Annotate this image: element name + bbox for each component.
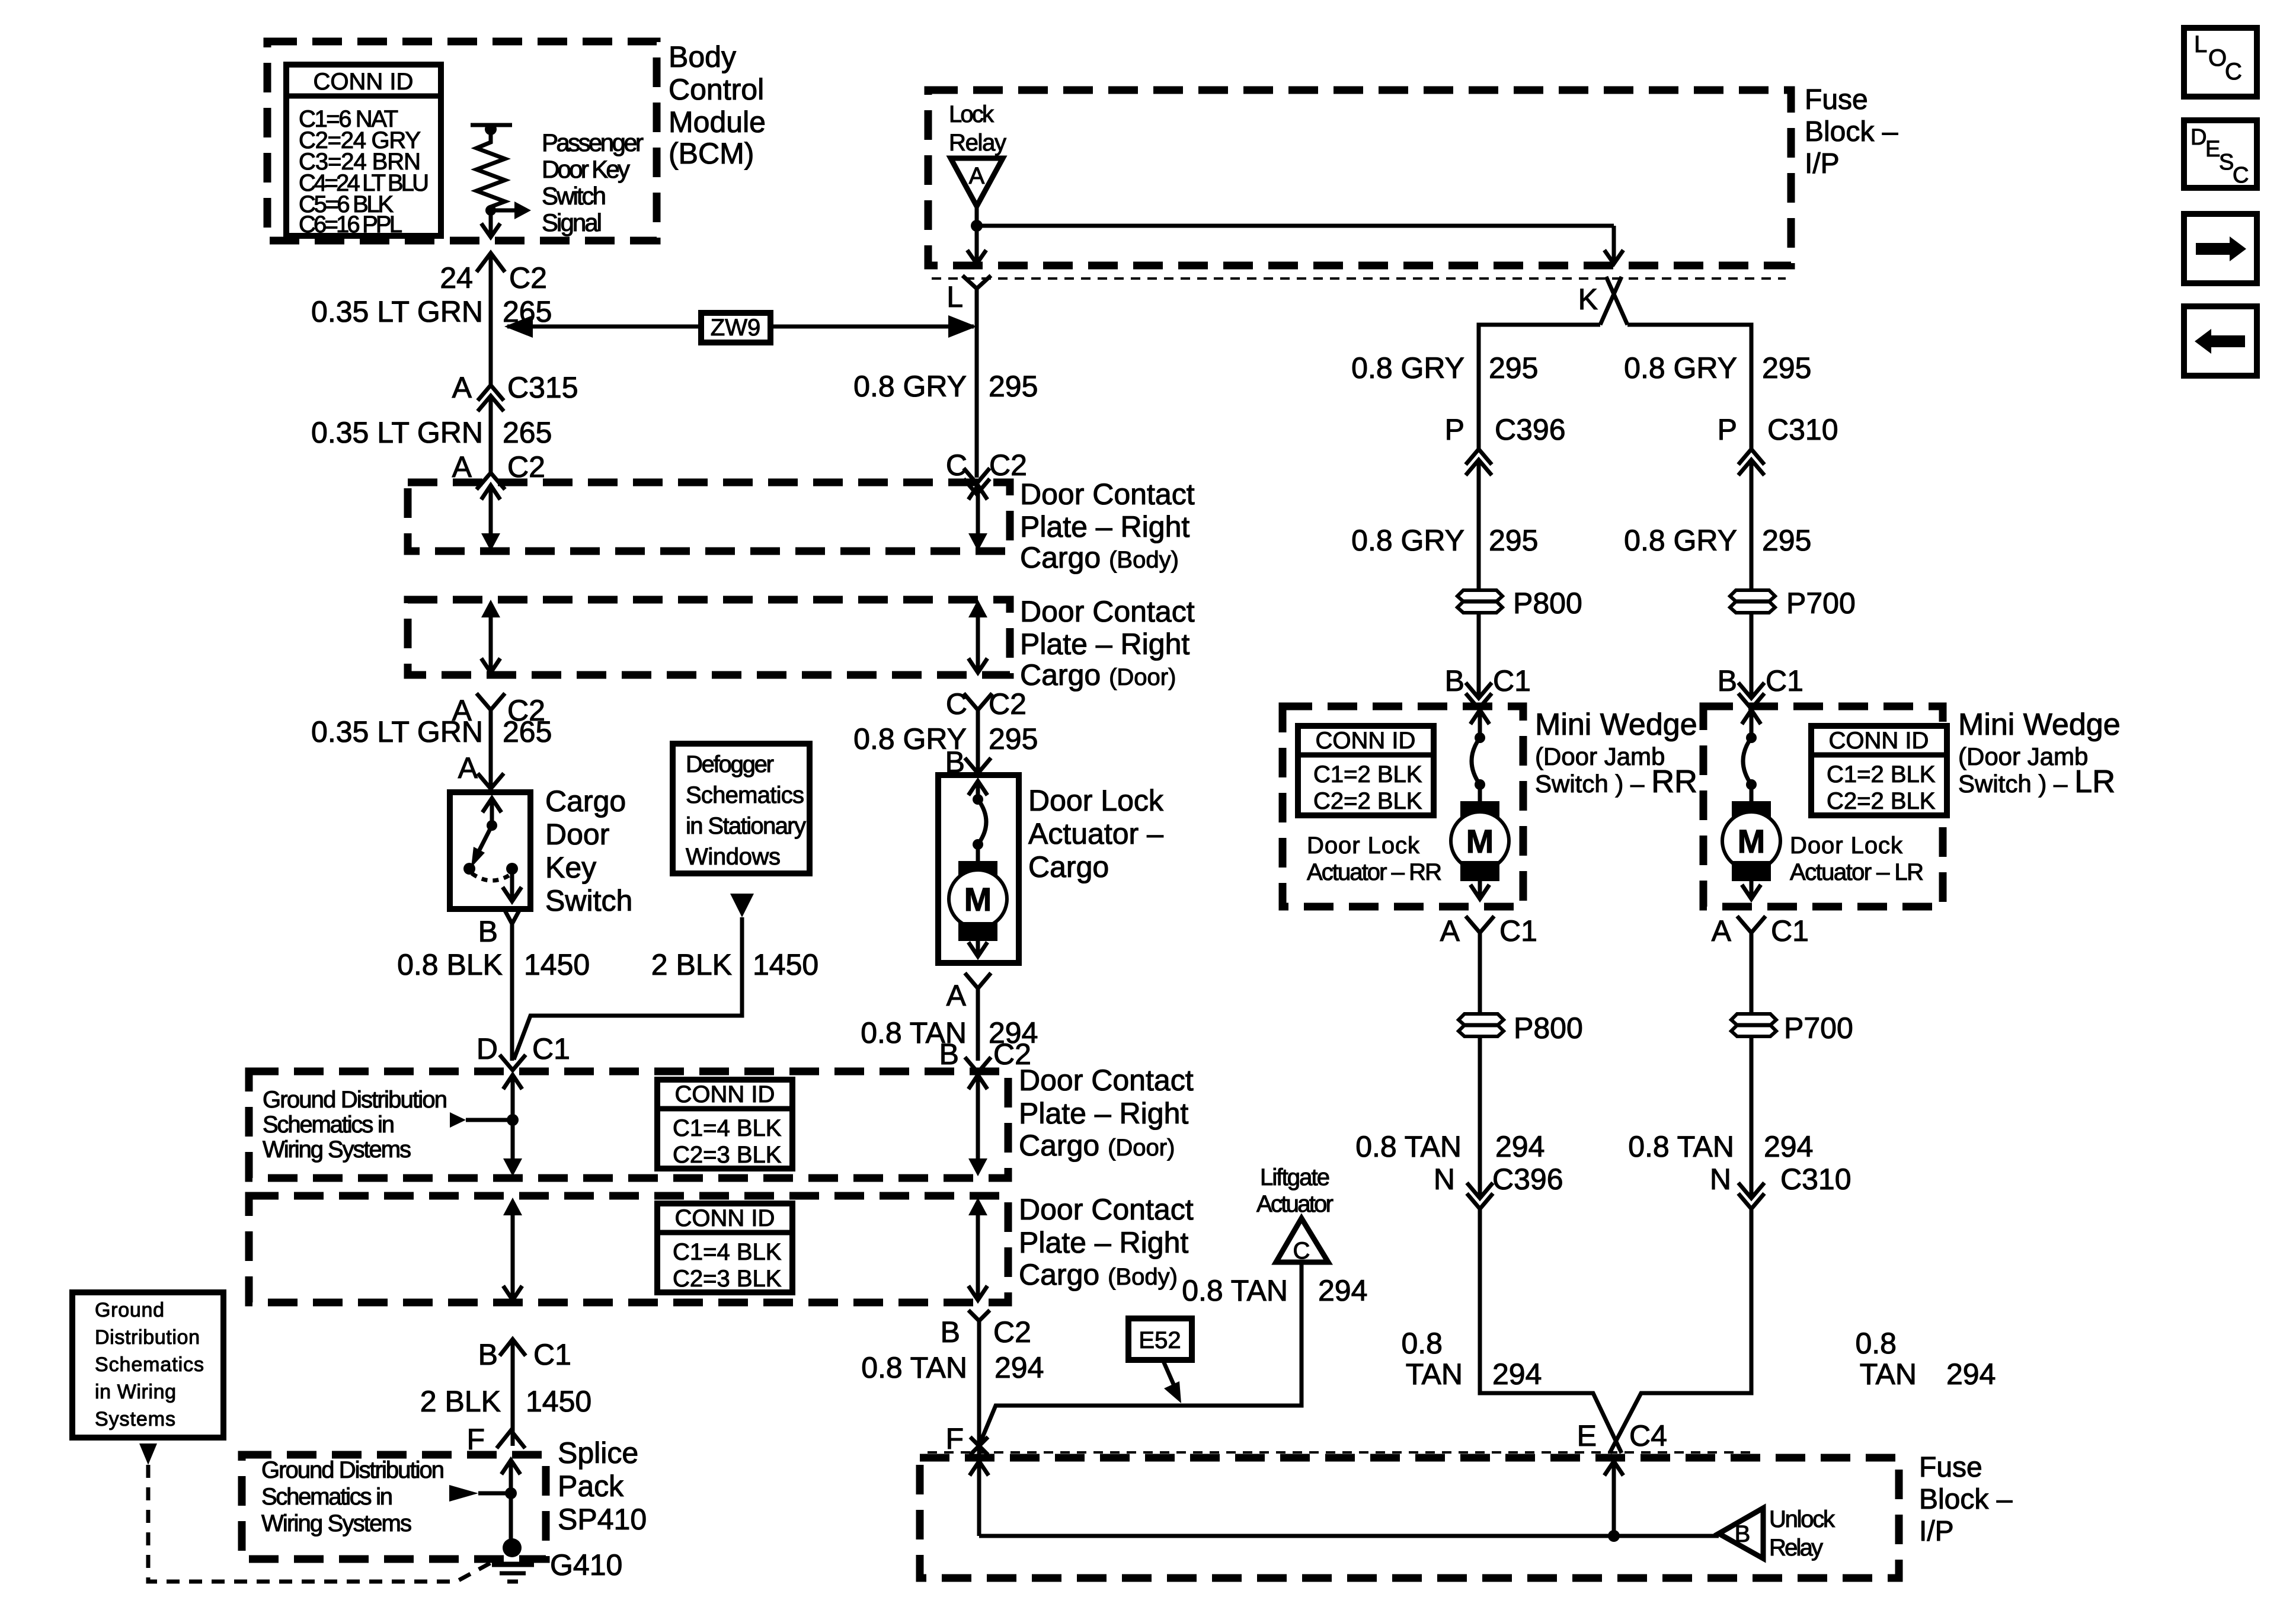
svg-text:B: B [478, 1338, 498, 1371]
svg-text:Door Lock: Door Lock [1790, 833, 1903, 859]
label P700 upper [1786, 587, 1856, 620]
wire in bottom fuse block F side [970, 1461, 989, 1536]
pin label B (actuator) [945, 745, 965, 779]
svg-text:Windows: Windows [686, 844, 781, 870]
svg-text:2 BLK: 2 BLK [420, 1385, 501, 1418]
svg-text:C: C [2233, 163, 2249, 188]
wire label 0.8 GRY 295 (RR upper) [1351, 351, 1538, 385]
wire arrows in plate box1 left [481, 485, 500, 551]
svg-text:Liftgate: Liftgate [1260, 1164, 1330, 1190]
connector C315 double chevron [478, 385, 504, 411]
ground distribution note (in box) [263, 1087, 447, 1163]
door contact plate box (Body) upper [408, 482, 1010, 551]
svg-text:D: D [477, 1032, 498, 1065]
door lock actuator RR label [1307, 833, 1442, 885]
wire to L pin with arrow [967, 226, 986, 264]
svg-text:295: 295 [989, 370, 1038, 403]
dashed leader to G410 [148, 1465, 497, 1582]
grommet P700 upper [1730, 590, 1775, 613]
svg-text:1450: 1450 [524, 948, 590, 981]
svg-text:Relay: Relay [1769, 1535, 1823, 1561]
svg-text:M: M [964, 881, 992, 918]
wire label 0.35 LT GRN 265 (2) [311, 416, 552, 449]
svg-text:Schematics in: Schematics in [263, 1112, 395, 1138]
mini wedge RR box [1283, 706, 1523, 907]
unlock relay label [1769, 1506, 1835, 1561]
svg-text:A: A [969, 163, 985, 189]
mini wedge RR label [1535, 708, 1697, 799]
BCM label [669, 40, 766, 170]
svg-text:B: B [1718, 664, 1737, 697]
connector row thin dashed line (bottom) [928, 1451, 1754, 1454]
wire arrows in lower box B left [503, 1198, 522, 1300]
wire to K pin with arrow [1604, 226, 1623, 264]
wire to BCM pin with open arrow [481, 210, 500, 237]
svg-text:0.8 TAN: 0.8 TAN [861, 1351, 967, 1384]
right arrow icon box [2184, 214, 2257, 283]
svg-text:Plate – Right: Plate – Right [1020, 628, 1189, 661]
pin label F (middle) [945, 1422, 964, 1455]
door lock actuator RR internals [1451, 710, 1509, 899]
svg-text:F: F [945, 1422, 964, 1455]
svg-text:L: L [946, 280, 963, 313]
wire label 0.35 LT GRN 265 [311, 295, 552, 328]
cargo door key switch label [545, 785, 632, 917]
wire 0.8 GRY to actuator [976, 710, 980, 775]
door contact plate box (Body) lower [249, 1196, 1008, 1302]
svg-text:Schematics in: Schematics in [261, 1484, 393, 1510]
svg-text:Schematics: Schematics [686, 782, 804, 808]
connector chevron A/C2 below box2 [477, 693, 505, 710]
defogger note box [673, 744, 810, 873]
svg-text:Relay: Relay [949, 130, 1006, 156]
connector chevron C/C2 below box2 [964, 693, 992, 710]
wire split to RR branch [1479, 325, 1600, 449]
svg-text:C: C [946, 449, 967, 482]
wire label 0.8 TAN 294 (liftgate) [1182, 1274, 1367, 1307]
wire label 0.8 GRY 295 (LR upper) [1624, 351, 1811, 385]
svg-text:C1: C1 [532, 1032, 570, 1065]
wire RR 0.8 TAN to N [1478, 1036, 1482, 1197]
wire P700 to mini wedge [1750, 613, 1754, 697]
svg-text:Lock: Lock [949, 101, 994, 127]
svg-text:C: C [2225, 59, 2242, 85]
svg-text:P: P [1718, 413, 1737, 446]
pin label N C310 [1710, 1163, 1851, 1196]
svg-text:Signal: Signal [542, 209, 602, 236]
svg-text:Ground Distribution: Ground Distribution [263, 1087, 447, 1113]
svg-text:Key: Key [545, 851, 596, 884]
svg-text:(Door Jamb: (Door Jamb [1535, 742, 1665, 770]
svg-text:0.35 LT GRN: 0.35 LT GRN [311, 715, 483, 748]
wire label 2 BLK 1450 (lower) [420, 1385, 591, 1418]
wire label 0.8 GRY 295 [853, 370, 1038, 403]
svg-text:C1=4 BLK: C1=4 BLK [673, 1239, 782, 1265]
svg-text:Splice: Splice [558, 1436, 638, 1470]
pin label 24 C2 [440, 261, 547, 295]
svg-text:Door Contact: Door Contact [1019, 1064, 1194, 1097]
connector chevron B/C2 above lower boxes [965, 1057, 991, 1073]
svg-text:Door Key: Door Key [542, 155, 630, 183]
connector chevron A below actuator [965, 973, 991, 988]
G410 label [550, 1548, 622, 1582]
splice pack label [558, 1436, 647, 1536]
svg-text:C310: C310 [1767, 413, 1838, 446]
connector chevron B actuator [965, 758, 991, 773]
svg-text:Door Lock: Door Lock [1307, 833, 1420, 859]
left arrow icon box [2184, 306, 2257, 376]
pin label P C310 [1718, 413, 1838, 446]
wire P800 to mini wedge [1477, 613, 1481, 697]
connector chevron P/C396 double [1466, 449, 1492, 475]
wire 2 BLK 1450 to splice [511, 1339, 515, 1446]
svg-text:Actuator –: Actuator – [1028, 817, 1163, 850]
svg-text:0.8 GRY: 0.8 GRY [853, 370, 967, 403]
wire LR down to E [1610, 1209, 1751, 1453]
svg-text:(Door Jamb: (Door Jamb [1958, 742, 2088, 770]
svg-text:E: E [2205, 137, 2220, 162]
grommet P800 lower [1459, 1014, 1504, 1036]
svg-text:C2: C2 [993, 1038, 1031, 1071]
svg-text:Block –: Block – [1919, 1484, 2013, 1515]
BCM module box (Body Control Module) [267, 41, 657, 241]
wire LR 0.8 TAN to N [1750, 1036, 1754, 1197]
svg-text:Door Contact: Door Contact [1019, 1193, 1194, 1226]
svg-text:Plate – Right: Plate – Right [1019, 1226, 1188, 1259]
svg-text:Mini Wedge: Mini Wedge [1958, 708, 2121, 742]
wire 0.35 LT GRN 265 [489, 253, 493, 385]
svg-text:Schematics: Schematics [95, 1353, 204, 1376]
CONN ID table (plate door) [657, 1080, 792, 1169]
wire 0.8 TAN 294 to F [977, 1321, 981, 1455]
svg-text:Pack: Pack [558, 1470, 624, 1503]
svg-text:Block –: Block – [1805, 116, 1898, 148]
svg-text:P: P [1445, 413, 1464, 446]
wire label 0.8 TAN 294 [861, 1016, 1038, 1049]
svg-text:S: S [2219, 150, 2234, 175]
connector chevron B/C2 below lower boxes [968, 1310, 990, 1321]
svg-text:0.8: 0.8 [1401, 1327, 1443, 1360]
pin label N C396 [1434, 1163, 1563, 1196]
pin label E C4 [1577, 1419, 1667, 1452]
connector chevron P/C310 double [1738, 449, 1764, 475]
svg-text:C1: C1 [1771, 914, 1809, 948]
label P800 upper [1513, 587, 1582, 620]
wire arrows in plate box2 right [968, 600, 987, 673]
svg-text:294: 294 [1495, 1130, 1544, 1163]
svg-text:Ground: Ground [95, 1299, 164, 1321]
svg-text:C2: C2 [509, 261, 547, 295]
svg-text:CONN ID: CONN ID [675, 1205, 775, 1231]
svg-text:0.8 GRY: 0.8 GRY [1351, 524, 1464, 557]
svg-text:Plate – Right: Plate – Right [1019, 1097, 1188, 1130]
svg-text:Fuse: Fuse [1805, 84, 1868, 116]
wire up to E pin [1604, 1461, 1623, 1536]
svg-text:0.8 TAN: 0.8 TAN [1628, 1130, 1734, 1163]
connector chevron B/C1 below [500, 1339, 526, 1356]
connector chevron C/C2 double [964, 468, 990, 494]
svg-text:0.8: 0.8 [1855, 1327, 1897, 1360]
door lock actuator LR label [1790, 833, 1924, 885]
svg-text:C2=2 BLK: C2=2 BLK [1827, 788, 1936, 814]
connector X at F [970, 1437, 988, 1455]
wire arrows in lower box A left [503, 1075, 522, 1176]
svg-text:B: B [1445, 664, 1464, 697]
svg-text:L: L [2194, 31, 2207, 57]
cargo door key switch box [450, 792, 530, 909]
svg-text:Ground Distribution: Ground Distribution [261, 1457, 445, 1483]
svg-text:CONN ID: CONN ID [675, 1081, 775, 1108]
svg-text:CONN ID: CONN ID [1829, 728, 1929, 754]
pin label F (splice) [466, 1423, 485, 1456]
key switch internals [463, 798, 522, 901]
svg-text:C6=16 PPL: C6=16 PPL [299, 212, 402, 238]
pin label C C2 [946, 449, 1027, 482]
wire 0.35 LT GRN 265 segment 2 [489, 396, 493, 474]
svg-text:N: N [1710, 1163, 1731, 1196]
svg-text:CONN ID: CONN ID [314, 69, 414, 95]
door lock actuator cargo box [938, 775, 1019, 963]
wire 2 BLK 1450 from defogger [514, 917, 742, 1060]
connector chevron B/C1 double (RR) [1466, 683, 1492, 709]
CONN ID table (LR) [1811, 726, 1947, 815]
svg-text:C396: C396 [1492, 1163, 1563, 1196]
svg-text:2 BLK: 2 BLK [651, 948, 732, 981]
svg-text:B: B [941, 1315, 960, 1349]
reference leader triangle [139, 1443, 157, 1465]
svg-text:Wiring Systems: Wiring Systems [263, 1137, 411, 1163]
fuse block I/P box (bottom) [920, 1458, 1899, 1578]
wire arrows in plate box1 right [968, 485, 987, 551]
svg-text:C2: C2 [989, 687, 1027, 721]
door contact plate (Door) label [1020, 595, 1195, 692]
ground leader arrow to wire [450, 1112, 519, 1128]
svg-text:Actuator – LR: Actuator – LR [1790, 859, 1924, 885]
fuse block bottom label [1919, 1452, 2013, 1547]
connector chevron N/C396 double [1467, 1183, 1493, 1209]
fuse block I/P box (top) [928, 90, 1791, 265]
LOC icon box [2184, 28, 2257, 97]
svg-text:Unlock: Unlock [1769, 1506, 1835, 1532]
svg-text:in Wiring: in Wiring [95, 1381, 176, 1403]
svg-text:295: 295 [1762, 351, 1811, 385]
svg-text:C1=2 BLK: C1=2 BLK [1827, 761, 1936, 788]
pin label A (below actuator) [946, 979, 967, 1012]
wire arrows in lower box B right [968, 1198, 987, 1300]
svg-text:C1: C1 [1499, 914, 1537, 948]
ground G410 [492, 1538, 534, 1582]
svg-text:C1: C1 [533, 1338, 571, 1371]
pin label L [946, 280, 963, 313]
svg-text:P800: P800 [1514, 1012, 1583, 1045]
svg-text:Distribution: Distribution [95, 1326, 200, 1349]
wire label 0.8 TAN 294 (bottom middle) [861, 1351, 1044, 1384]
svg-text:I/P: I/P [1805, 148, 1840, 180]
svg-text:TAN: TAN [1406, 1358, 1463, 1391]
defogger leader arrow [730, 894, 754, 917]
svg-text:24: 24 [440, 261, 473, 295]
pin label B C1 (RR) [1445, 664, 1531, 697]
wire 0.8 BLK 1450 [510, 924, 514, 1061]
svg-text:Fuse: Fuse [1919, 1452, 1982, 1483]
relay output wire and junction [971, 206, 1614, 232]
pin label B [478, 915, 498, 948]
door lock actuator LR internals [1722, 710, 1780, 899]
svg-text:TAN: TAN [1860, 1358, 1917, 1391]
svg-text:C310: C310 [1780, 1163, 1851, 1196]
svg-text:0.8 TAN: 0.8 TAN [1182, 1274, 1288, 1307]
svg-text:CONN ID: CONN ID [1316, 728, 1416, 754]
connector chevron A/C2 [477, 473, 505, 489]
lock relay label [949, 101, 1006, 156]
svg-text:A: A [458, 751, 478, 785]
mini wedge LR label [1958, 708, 2121, 799]
connector chevron D/C1 [500, 1055, 526, 1070]
pin label B C2 (above lower boxes) [939, 1038, 1031, 1071]
wire RR to P800 lower [1478, 933, 1482, 1014]
svg-text:C315: C315 [507, 371, 578, 404]
svg-text:C2: C2 [993, 1315, 1031, 1349]
liftgate actuator triangle C [1276, 1218, 1328, 1264]
svg-text:C1: C1 [1766, 664, 1803, 697]
svg-text:B: B [1735, 1521, 1751, 1547]
door lock actuator cargo label [1028, 784, 1164, 884]
wire RR down to E [1480, 1209, 1622, 1453]
actuator internals (switch + motor M) [949, 781, 1007, 956]
resistor (passenger door key switch input) [471, 123, 512, 210]
svg-text:C2=3 BLK: C2=3 BLK [673, 1266, 782, 1292]
label P800 lower [1514, 1012, 1583, 1045]
svg-text:294: 294 [1946, 1358, 1996, 1391]
connector chevron B below key switch [504, 908, 520, 924]
svg-text:Defogger: Defogger [686, 751, 774, 777]
svg-text:Control: Control [669, 73, 764, 106]
svg-text:0.8 BLK: 0.8 BLK [397, 948, 503, 981]
splice leader arrow [449, 1485, 517, 1502]
svg-text:295: 295 [989, 722, 1038, 756]
CONN ID table (BCM) [286, 65, 441, 238]
svg-text:Switch: Switch [545, 884, 632, 917]
pin label A (key switch) [458, 751, 478, 785]
svg-text:0.8 GRY: 0.8 GRY [1624, 524, 1737, 557]
wire RR to P800 [1477, 460, 1481, 590]
connector chevron 24/C2 [477, 253, 505, 272]
svg-text:C4: C4 [1629, 1419, 1667, 1452]
svg-text:1450: 1450 [753, 948, 818, 981]
pin label B C1 [478, 1338, 571, 1371]
splice pack box [242, 1455, 546, 1559]
svg-text:295: 295 [1489, 524, 1538, 557]
svg-text:ZW9: ZW9 [711, 315, 760, 341]
svg-text:SP410: SP410 [558, 1503, 647, 1536]
unlock relay triangle B [1719, 1508, 1763, 1558]
svg-text:Door Lock: Door Lock [1028, 784, 1164, 817]
pin label A C1 (RR) [1440, 914, 1537, 948]
svg-text:(BCM): (BCM) [669, 137, 754, 170]
svg-text:C2=2 BLK: C2=2 BLK [1313, 788, 1422, 814]
wire label 0.8 GRY 295 (LR lower) [1624, 524, 1811, 557]
svg-text:295: 295 [1489, 351, 1538, 385]
svg-text:P800: P800 [1513, 587, 1582, 620]
E52 callout box [1128, 1318, 1192, 1403]
wire label 0.8 TAN 294 (RR bottom) [1401, 1327, 1542, 1391]
connector chevron B/C1 double (LR) [1738, 683, 1764, 709]
door contact plate (Body) lower label [1019, 1193, 1194, 1291]
connector chevron A/C1 (LR) [1737, 916, 1766, 933]
connector chevron A/C1 (RR) [1466, 916, 1494, 933]
pin label A C1 (LR) [1712, 914, 1809, 948]
fuse block top label [1805, 84, 1898, 180]
ground distribution note (in splice box) [261, 1457, 445, 1537]
connector chevron N/C310 double [1738, 1183, 1764, 1209]
svg-text:D: D [2191, 125, 2207, 150]
door contact plate (Door) lower label [1019, 1064, 1194, 1162]
svg-text:Mini Wedge: Mini Wedge [1535, 708, 1697, 742]
Passenger Door Key Switch Signal label [542, 129, 644, 236]
wire label 0.8 GRY 295 (RR lower) [1351, 524, 1538, 557]
svg-text:C396: C396 [1495, 413, 1566, 446]
svg-text:P700: P700 [1786, 587, 1856, 620]
svg-text:265: 265 [503, 416, 552, 449]
pin label A C2 (below box2) [452, 694, 545, 727]
pin label B C1 (LR) [1718, 664, 1803, 697]
wire arrows in plate box2 left [481, 600, 500, 673]
wire arrows in lower box A right [968, 1075, 987, 1176]
svg-text:C2=3 BLK: C2=3 BLK [673, 1142, 782, 1168]
grommet P800 upper [1457, 590, 1502, 613]
wire label 0.8 TAN 294 (LR bottom) [1855, 1327, 1996, 1391]
svg-text:in Stationary: in Stationary [686, 813, 806, 839]
wire label 0.8 BLK 1450 [397, 948, 590, 981]
wire 0.8 TAN 294 [976, 988, 980, 1061]
svg-text:A: A [946, 979, 967, 1012]
ZW9 option arrow [504, 313, 977, 343]
svg-text:M: M [1738, 822, 1766, 860]
svg-text:1450: 1450 [526, 1385, 591, 1418]
wire 0.35 LT GRN to key switch [489, 710, 493, 788]
pin label C C2 (below box2) [946, 687, 1027, 721]
svg-text:B: B [939, 1038, 959, 1071]
connector row thin dashed line (top) [932, 277, 1786, 280]
connector X at K [1600, 277, 1627, 325]
svg-text:0.8 GRY: 0.8 GRY [1351, 351, 1464, 385]
pin label A C315 [452, 371, 578, 404]
svg-text:294: 294 [994, 1351, 1044, 1384]
liftgate actuator label [1256, 1164, 1334, 1217]
svg-text:C2: C2 [989, 449, 1027, 482]
signal arrow (to Signal text) [485, 201, 531, 219]
svg-text:E: E [1577, 1419, 1597, 1452]
svg-text:C1: C1 [1493, 664, 1531, 697]
svg-text:0.35 LT GRN: 0.35 LT GRN [311, 295, 483, 328]
svg-text:A: A [1712, 914, 1732, 948]
svg-text:C: C [946, 687, 967, 721]
svg-text:Door: Door [545, 818, 609, 851]
pin label A C2 [452, 450, 545, 484]
unlock relay bus wire [979, 1530, 1719, 1542]
wire 0.8 GRY 295 (middle) [975, 289, 979, 478]
ground distribution reference box (solid) [72, 1292, 223, 1438]
CONN ID table (RR) [1298, 726, 1434, 815]
svg-text:Door Contact: Door Contact [1020, 478, 1195, 511]
svg-text:Actuator – RR: Actuator – RR [1307, 859, 1442, 885]
wire LR to P700 lower [1750, 933, 1754, 1014]
svg-text:0.8 TAN: 0.8 TAN [1355, 1130, 1462, 1163]
svg-text:0.35 LT GRN: 0.35 LT GRN [311, 416, 483, 449]
svg-text:0.8 GRY: 0.8 GRY [1624, 351, 1737, 385]
svg-text:G410: G410 [550, 1548, 622, 1582]
wire LR to P700 [1750, 460, 1754, 590]
